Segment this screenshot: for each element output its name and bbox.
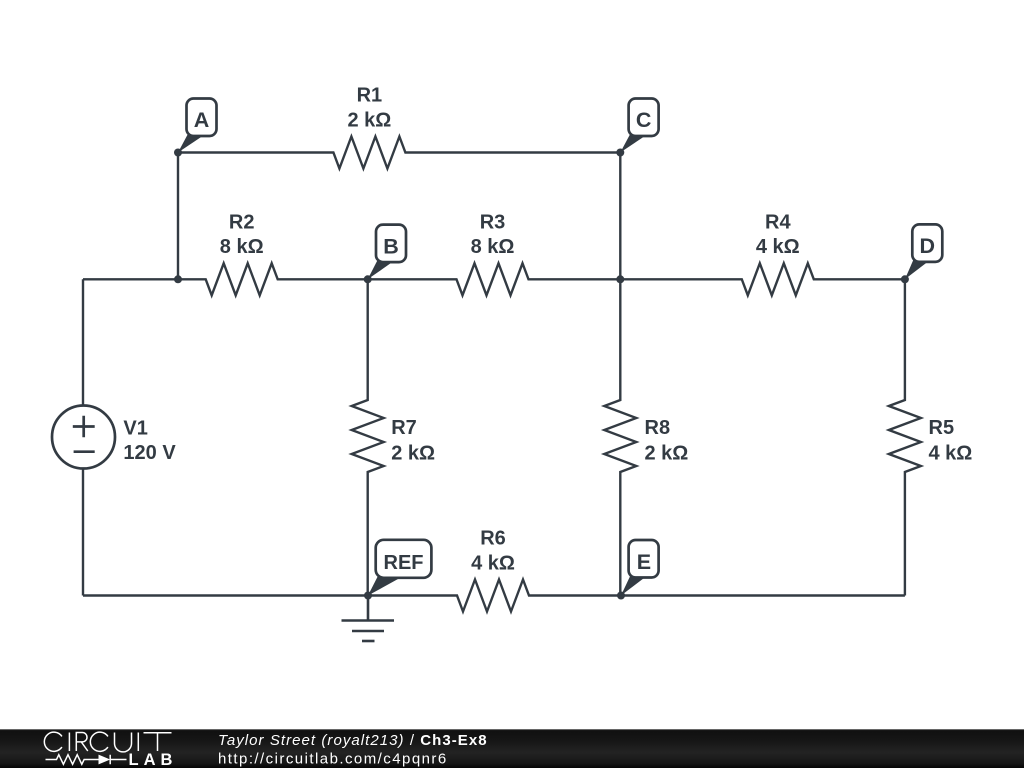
svg-text:http://circuitlab.com/c4pqnr6: http://circuitlab.com/c4pqnr6 — [218, 750, 448, 767]
svg-text:R3: R3 — [480, 212, 506, 234]
svg-text:R4: R4 — [765, 212, 791, 234]
svg-text:Taylor Street (royalt213) / Ch: Taylor Street (royalt213) / Ch3-Ex8 — [218, 732, 488, 749]
svg-text:REF: REF — [384, 552, 424, 574]
svg-text:R1: R1 — [357, 85, 383, 107]
svg-text:R7: R7 — [391, 417, 417, 439]
svg-text:R5: R5 — [929, 417, 955, 439]
svg-text:C: C — [636, 108, 652, 132]
svg-text:E: E — [637, 550, 651, 574]
svg-text:8 kΩ: 8 kΩ — [471, 236, 515, 258]
svg-text:A: A — [194, 108, 210, 132]
svg-text:R8: R8 — [645, 417, 671, 439]
svg-text:B: B — [383, 234, 399, 258]
svg-text:V1: V1 — [123, 418, 147, 440]
svg-text:120 V: 120 V — [123, 442, 176, 464]
svg-text:2 kΩ: 2 kΩ — [391, 443, 435, 465]
svg-text:4 kΩ: 4 kΩ — [756, 236, 800, 258]
svg-text:R6: R6 — [480, 528, 506, 550]
svg-text:D: D — [920, 234, 936, 258]
svg-text:LAB: LAB — [129, 751, 178, 768]
svg-text:8 kΩ: 8 kΩ — [220, 236, 264, 258]
svg-text:4 kΩ: 4 kΩ — [929, 443, 973, 465]
svg-text:2 kΩ: 2 kΩ — [645, 443, 689, 465]
svg-text:R2: R2 — [229, 212, 255, 234]
svg-text:2 kΩ: 2 kΩ — [347, 109, 391, 131]
svg-text:4 kΩ: 4 kΩ — [471, 552, 515, 574]
